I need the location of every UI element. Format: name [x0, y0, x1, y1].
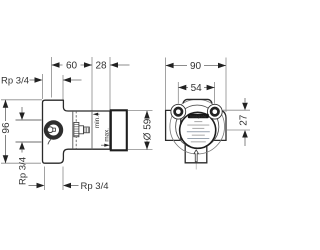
- bold protection cap: [111, 110, 127, 150]
- flow arrow in bottom block: [194, 150, 198, 162]
- svg-text:Ø 59: Ø 59: [143, 118, 154, 140]
- svg-text:Rp 3/4: Rp 3/4: [18, 157, 29, 185]
- extension line x63 (flange back face): [62, 75, 64, 102]
- screw bosses: [171, 104, 186, 119]
- dim 90: [166, 65, 226, 67]
- extension line x110 (28 dim right): [109, 57, 111, 111]
- svg-text:Rp 3/4: Rp 3/4: [1, 76, 29, 87]
- svg-text:90: 90: [190, 61, 202, 72]
- section line x92 inside cylinder: [91, 111, 93, 149]
- svg-text:min.: min.: [94, 116, 101, 128]
- ext lines 27 dim: [223, 109, 250, 111]
- inner section line x72.8: [72, 111, 74, 149]
- max label + arrow: [101, 144, 105, 146]
- centerline below bottom block: [195, 164, 197, 170]
- dim Ø59 vertical: [146, 111, 148, 150]
- dim 96 vertical: [5, 100, 7, 163]
- dim 54: [178, 87, 214, 89]
- port dim arrows (left, x22): [21, 107, 23, 114]
- bottom port block: [185, 144, 207, 163]
- inner screw glyph: [47, 127, 53, 133]
- ext lines 96 dim: [1, 99, 42, 101]
- label disc: [180, 112, 216, 148]
- extension/section line x92 (60 dim right + min line): [91, 57, 93, 149]
- extension line x51.5 (60 dim left): [1, 57, 110, 163]
- bottom Rp 3/4 dim: [29, 185, 38, 187]
- Ø59 ext lines: [128, 110, 153, 112]
- dim 60 line: [52, 64, 93, 66]
- bottom Rp 3/4 ext lines: [44, 167, 46, 191]
- hansgrohe label: [188, 114, 209, 119]
- top ledge outline: [183, 99, 212, 103]
- dim 28 outside arrow: [110, 64, 130, 66]
- svg-text:28: 28: [95, 61, 107, 72]
- thin escutcheon circle: [176, 105, 219, 148]
- left block: [166, 110, 181, 140]
- svg-text:54: 54: [191, 83, 203, 94]
- small arc below ring: [48, 139, 51, 144]
- min label + arrow: [96, 113, 100, 115]
- label text lines: [187, 121, 210, 142]
- svg-text:27: 27: [238, 114, 249, 126]
- ext lines 90 dim: [166, 58, 250, 131]
- svg-text:max.: max.: [103, 128, 110, 142]
- extension line x42.5 (flange front face): [42, 74, 44, 99]
- dim 60 arrows: [52, 62, 60, 68]
- svg-text:hansgrohe: hansgrohe: [190, 114, 207, 118]
- screw detail in cylinder: [74, 122, 89, 136]
- ext lines 54 dim: [177, 82, 179, 104]
- dim 27 (right side): [244, 98, 246, 103]
- svg-text:Rp 3/4: Rp 3/4: [81, 181, 109, 192]
- port rings: [175, 108, 182, 115]
- valve body outline (flange + cylinder): [43, 100, 111, 163]
- svg-text:60: 60: [66, 61, 78, 72]
- right block: [211, 110, 226, 140]
- large thin circle r27 (escutcheon): [170, 99, 225, 154]
- hidden dashed line x76: [75, 111, 77, 149]
- cartridge ring in flange: [46, 122, 61, 137]
- svg-text:96: 96: [1, 122, 12, 134]
